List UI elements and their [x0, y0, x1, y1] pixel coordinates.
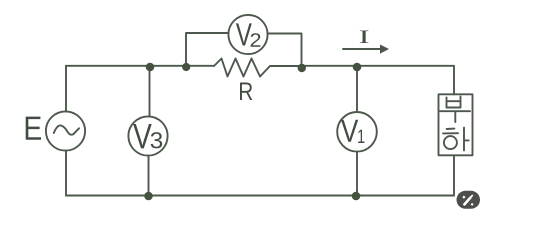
- wire bottom bus: node F to bottom-right corner: [356, 195, 454, 197]
- node A junction dot: [146, 63, 155, 72]
- voltmeter V1 circle: [337, 112, 377, 152]
- resistor R value label: [240, 83, 252, 101]
- voltmeter V1 label: [341, 120, 364, 143]
- wire bottom bus: node E to node F: [149, 195, 357, 197]
- node B junction dot: [182, 63, 190, 71]
- wire top bus: top-left corner to node A: [66, 65, 150, 67]
- wire top bus: node A to node B: [150, 65, 186, 67]
- AC source E sine symbol: [54, 125, 79, 134]
- node D junction dot: [353, 63, 362, 72]
- source label E: [26, 117, 41, 140]
- AC source E circle: [46, 111, 85, 150]
- wire: voltmeter V1 branch lower: [356, 152, 358, 196]
- voltmeter V3 circle: [128, 116, 167, 155]
- node F junction dot: [352, 192, 361, 201]
- current direction arrow: [343, 45, 389, 54]
- current label I: [360, 31, 369, 44]
- wire top bus: node C to node D: [302, 65, 358, 67]
- voltmeter V2 label: [236, 23, 261, 46]
- load hangul glyph 부: [440, 97, 470, 123]
- node E junction dot: [144, 192, 153, 201]
- voltmeter V2 circle: [228, 15, 267, 54]
- load hangul glyph 하: [443, 128, 469, 151]
- wire top bus: node D to top-right corner down to load top: [357, 66, 454, 95]
- resistor R zigzag: [214, 59, 270, 77]
- load hangul glyph 하 circle of ㅎ: [444, 136, 457, 149]
- load box (부하): [439, 94, 473, 155]
- wire: source E bottom to bottom-left corner: [65, 151, 67, 196]
- UI magic-wand button overlay: [457, 191, 481, 209]
- wire: voltmeter V1 branch upper: [356, 66, 358, 112]
- voltmeter V3 label: [133, 124, 162, 148]
- wire: V2 loop right branch: [268, 34, 302, 66]
- wire bottom bus: bottom-left corner to node E: [66, 195, 149, 197]
- wire top bus: node B to resistor R left lead: [186, 65, 214, 67]
- wire: voltmeter V3 branch lower: [148, 156, 150, 196]
- node C junction dot: [298, 64, 306, 72]
- wire: voltmeter V3 branch upper: [149, 66, 151, 117]
- wire: left vertical from top bus to source E: [65, 66, 67, 112]
- wire: V2 loop left branch: [186, 33, 229, 66]
- wire: load bottom to bottom-right corner: [453, 155, 455, 195]
- wire: resistor R right lead to node C: [270, 65, 302, 67]
